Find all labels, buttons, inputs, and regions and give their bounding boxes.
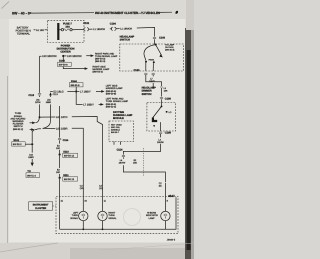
wire L61 18TN horizontal: [41, 116, 56, 118]
svg-text:10A: 10A: [65, 25, 70, 28]
splice S143 on L50 wire: [40, 55, 42, 57]
svg-text:MODULE: MODULE: [113, 117, 124, 120]
wire E2 18LG into splice: [50, 91, 53, 93]
svg-text:CLUSTER: CLUSTER: [35, 207, 47, 210]
header rule with end dot: [30, 12, 32, 14]
svg-text:8W-50-8: 8W-50-8: [71, 84, 80, 87]
wire from fuse to box edge: [72, 28, 84, 30]
svg-text:WARNING: WARNING: [12, 120, 23, 123]
svg-text:E2 18LG: E2 18LG: [53, 90, 63, 93]
svg-text:(8W-52-3): (8W-52-3): [106, 105, 117, 108]
svg-text:(8W-45-2): (8W-45-2): [165, 49, 175, 52]
splice node on L7 wire: [75, 90, 77, 92]
svg-text:LEFT PARK AND: LEFT PARK AND: [106, 98, 124, 101]
svg-text:S101: S101: [13, 139, 19, 142]
flasher output arrow upper: [30, 122, 33, 124]
svg-text:S144: S144: [71, 80, 77, 83]
svg-text:SIGNAL: SIGNAL: [108, 217, 117, 220]
cluster ground bus: [59, 197, 61, 230]
svg-text:(8W-50-2): (8W-50-2): [93, 71, 104, 74]
svg-text:PARK: PARK: [149, 59, 155, 62]
svg-text:SIGNAL: SIGNAL: [70, 217, 79, 220]
svg-text:8W-40 INSTRUMENT CLUSTER—YJ VE: 8W-40 INSTRUMENT CLUSTER—YJ VEHICLES: [95, 11, 160, 15]
svg-text:FLASHER: FLASHER: [13, 123, 24, 126]
svg-text:8W-50-12: 8W-50-12: [64, 155, 75, 158]
svg-text:18TN: 18TN: [35, 101, 41, 104]
right turn signal indicator lamp: [98, 211, 107, 220]
svg-text:LAMP: LAMP: [149, 217, 155, 220]
svg-text:C113: C113: [53, 93, 59, 96]
wire A1 16R battery feed: [34, 29, 36, 31]
lamp feeds inside cluster: [82, 197, 84, 212]
wire into headlamp switch: [154, 39, 156, 44]
svg-text:18BR: 18BR: [46, 101, 52, 104]
hi beam indicator lamp: [161, 211, 170, 220]
svg-text:18O: 18O: [133, 161, 137, 164]
svg-text:RIGHT: RIGHT: [108, 212, 115, 215]
node on bus bar: [57, 29, 59, 31]
splice S101: [31, 143, 33, 145]
dimmer contact bracket: [152, 118, 157, 123]
switch contacts: [153, 61, 155, 63]
svg-text:18V/W: 18V/W: [157, 141, 164, 144]
flasher output arrow lower: [30, 129, 32, 131]
dimmer arm: [153, 106, 162, 117]
svg-text:INDICATOR: INDICATOR: [146, 214, 158, 217]
top-left page curl mark: [2, 2, 10, 9]
junction L61: [39, 116, 41, 118]
switch output stubs: [145, 62, 147, 71]
svg-text:8W-51-2: 8W-51-2: [27, 174, 36, 177]
svg-text:TURN: TURN: [15, 112, 22, 115]
svg-text:4847: 4847: [168, 194, 175, 198]
connector C114 on ground column: [58, 137, 61, 139]
splice S111: [59, 177, 61, 179]
svg-text:LEFT: LEFT: [73, 212, 79, 215]
svg-text:LEFT SIDE: LEFT SIDE: [106, 85, 118, 88]
svg-text:S110: S110: [63, 150, 69, 153]
svg-text:J9040-5: J9040-5: [167, 238, 176, 241]
svg-text:L7 18B/Y: L7 18B/Y: [83, 103, 94, 106]
dimmer hi contact: [166, 111, 168, 113]
svg-text:(8W-52-2): (8W-52-2): [13, 128, 24, 131]
wire L1 18R/OR: [88, 28, 92, 30]
PDC bus bar: [57, 23, 59, 40]
svg-text:8W-50-13: 8W-50-13: [64, 178, 75, 181]
svg-text:18B/Y: 18B/Y: [149, 80, 155, 83]
faint ghost dial: [124, 209, 141, 226]
wire to dimmer switch: [146, 75, 162, 86]
svg-text:SIGNAL: SIGNAL: [14, 115, 23, 118]
book spine shadow right edge: [185, 28, 191, 259]
headlamp dimmer switch box: [147, 103, 176, 132]
svg-text:C104: C104: [110, 22, 117, 25]
wire L4 from dimmer: [160, 134, 162, 137]
svg-text:L61 18TN: L61 18TN: [56, 116, 68, 119]
svg-text:(8W-50-6): (8W-50-6): [106, 103, 117, 106]
DRL module stubs: [113, 142, 115, 145]
continuation arrow down: [31, 163, 34, 167]
splice S110: [59, 153, 61, 155]
dimmer pivot: [161, 103, 163, 106]
svg-text:18BR: 18BR: [28, 156, 34, 159]
svg-text:C108: C108: [165, 131, 172, 134]
svg-text:8W - 40 - 8: 8W - 40 - 8: [12, 12, 30, 16]
dimmer output: [160, 122, 162, 131]
power distribution center box: [48, 20, 84, 42]
svg-text:L1 18R/OR: L1 18R/OR: [93, 28, 105, 31]
svg-text:MARKER LAMP: MARKER LAMP: [106, 87, 123, 90]
daytime running lamp module box: [109, 121, 134, 142]
svg-text:TO LAMP: TO LAMP: [165, 43, 175, 46]
svg-text:18V/W: 18V/W: [119, 161, 126, 164]
wire L1 18R/OR to headlamp switch: [116, 28, 120, 30]
svg-text:A1 16R: A1 16R: [36, 29, 44, 32]
wire below S101: [31, 145, 33, 152]
svg-text:TURN SIGNAL LAMP: TURN SIGNAL LAMP: [95, 55, 118, 58]
headlamp switch arm park side: [144, 45, 156, 61]
svg-text:OUTAGE: OUTAGE: [165, 46, 174, 49]
wire L7 park output: [152, 75, 154, 76]
bus junction nodes: [82, 228, 84, 230]
vertical wire L50/L61 left: [39, 56, 41, 93]
page gutter line: [7, 76, 9, 243]
svg-text:8W-50-8: 8W-50-8: [59, 64, 68, 67]
svg-text:AND HAZARD: AND HAZARD: [11, 117, 26, 120]
svg-text:(8): (8): [159, 184, 162, 187]
svg-text:SWITCH: SWITCH: [120, 39, 130, 42]
instrument cluster box: [56, 197, 178, 234]
bottom-left page curl arc: [0, 243, 58, 252]
svg-text:CENTER: CENTER: [60, 51, 70, 54]
svg-text:C100: C100: [134, 69, 141, 72]
svg-text:L7 18B/Y: L7 18B/Y: [80, 90, 91, 93]
branch to splice S101: [32, 130, 34, 143]
svg-text:W/O DRL: W/O DRL: [111, 126, 121, 129]
header rule right: [158, 11, 173, 13]
svg-text:L50 18R/OR: L50 18R/OR: [67, 55, 82, 58]
svg-text:C131: C131: [83, 22, 90, 25]
arrow to right park and turn signal lamp: [86, 55, 91, 57]
headlamp switch arm head side: [156, 45, 162, 56]
svg-text:S111: S111: [63, 174, 69, 177]
headlamp switch pivot: [154, 43, 157, 45]
svg-text:18R: 18R: [164, 89, 168, 92]
svg-text:HI-BEAM: HI-BEAM: [147, 212, 156, 215]
svg-text:C114: C114: [63, 139, 69, 142]
vertical wire right with up arrow: [49, 92, 52, 95]
svg-text:L1 18R/OR: L1 18R/OR: [120, 28, 132, 31]
svg-text:C114: C114: [117, 148, 123, 151]
svg-text:L62 18BR: L62 18BR: [56, 127, 68, 130]
wire L62 horizontal: [38, 128, 41, 130]
svg-text:TERMINAL: TERMINAL: [17, 33, 31, 36]
svg-text:SWITCH: SWITCH: [142, 93, 152, 96]
svg-text:(8W-50-8): (8W-50-8): [106, 92, 117, 95]
svg-text:C108: C108: [165, 98, 172, 101]
svg-text:18O: 18O: [56, 171, 60, 174]
svg-text:(8W-52-3): (8W-52-3): [95, 60, 106, 63]
svg-text:(8W-50-6): (8W-50-6): [106, 90, 117, 93]
svg-text:TURN: TURN: [108, 214, 114, 217]
svg-text:8W-52-2: 8W-52-2: [13, 143, 22, 146]
svg-text:(DIESEL): (DIESEL): [111, 129, 120, 132]
svg-text:NOT USED: NOT USED: [111, 123, 122, 126]
splice branch to left park lamp: [76, 93, 82, 105]
svg-text:C113: C113: [28, 94, 34, 97]
instrument cluster label: [29, 202, 53, 210]
svg-text:L50 18R/OR: L50 18R/OR: [42, 55, 57, 58]
svg-text:S143: S143: [59, 59, 65, 62]
svg-text:SWITCH: SWITCH: [13, 125, 22, 128]
svg-text:TURN: TURN: [72, 214, 78, 217]
svg-text:18O: 18O: [56, 147, 60, 150]
svg-text:8W-50-7: 8W-50-7: [111, 131, 120, 134]
connector boundary dashed line: [143, 148, 145, 176]
svg-text:C100: C100: [159, 37, 166, 40]
splice branch to right side marker lamp: [62, 57, 64, 62]
page background: [0, 0, 194, 259]
svg-text:MARKER LAMP: MARKER LAMP: [93, 68, 110, 71]
svg-text:(8W-50-2): (8W-50-2): [95, 58, 106, 61]
headlamp switch box: [120, 44, 184, 71]
svg-text:RIGHT SIDE: RIGHT SIDE: [93, 65, 107, 68]
svg-text:LO: LO: [169, 111, 172, 114]
svg-text:TURN SIGNAL LAMP: TURN SIGNAL LAMP: [106, 100, 129, 103]
ground column vertical: [59, 106, 61, 138]
left turn signal indicator lamp: [79, 211, 88, 220]
svg-text:RIGHT PARK AND: RIGHT PARK AND: [95, 52, 115, 55]
svg-text:TO: TO: [27, 170, 30, 173]
